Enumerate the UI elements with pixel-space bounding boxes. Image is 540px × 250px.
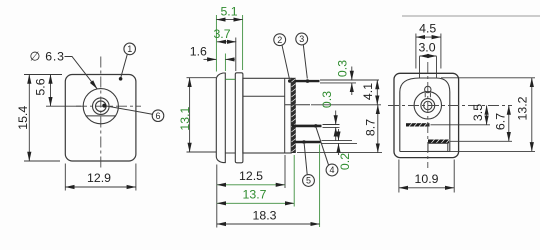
- svg-text:3.5: 3.5: [471, 104, 485, 121]
- dimension 3.5 line: [486, 106, 488, 125]
- pin extension lines right: [320, 79, 379, 81]
- svg-text:1.6: 1.6: [190, 44, 207, 58]
- extension line 1.6 right (green): [224, 54, 226, 72]
- middle pin: [292, 125, 322, 128]
- front view body outline: [65, 75, 136, 162]
- svg-text:13.7: 13.7: [243, 188, 267, 202]
- dimension 4.5 extension lines: [415, 34, 417, 69]
- bottom extension lines: [216, 165, 218, 228]
- dimension 4.1 line: [376, 80, 378, 105]
- leader for diameter 6.3: [65, 57, 98, 89]
- dimension 0.2 bottom pin: [338, 129, 340, 141]
- top pin: [295, 80, 320, 82]
- svg-text:0.2: 0.2: [338, 153, 352, 170]
- balloon label 6: [102, 104, 164, 122]
- dimension 10.9 extension lines: [398, 160, 400, 193]
- horizontal centerline back view: [388, 105, 512, 107]
- dimension 5.6 extension line: [46, 105, 81, 107]
- svg-text:1: 1: [127, 44, 132, 54]
- svg-text:10.9: 10.9: [415, 172, 439, 186]
- svg-text:8.7: 8.7: [363, 119, 377, 136]
- dimension 6.7 extension line: [450, 140, 512, 142]
- dimension 3.5 extension line: [431, 124, 491, 126]
- extension line 3.7 right: [235, 38, 237, 72]
- svg-text:0.3: 0.3: [320, 91, 334, 108]
- body internal horizontal line: [243, 95, 285, 97]
- top key slot lines: [419, 56, 421, 77]
- middle circle: [93, 98, 110, 115]
- barrel middle circle: [421, 99, 435, 113]
- svg-text:5.6: 5.6: [33, 78, 47, 95]
- small hole circle: [425, 86, 431, 92]
- balloon label 5: [302, 140, 314, 186]
- extension line 5.1 left (green): [215, 15, 217, 72]
- groove top line: [225, 78, 235, 80]
- dimension 13.1 extension lines: [187, 77, 217, 79]
- body internal vertical line: [284, 78, 286, 153]
- svg-text:3: 3: [299, 34, 304, 44]
- balloon label 2: [274, 34, 292, 83]
- dimension 4.5 line: [416, 36, 441, 38]
- dimension 3.0 line: [420, 55, 437, 57]
- dimension 10.9 line: [399, 187, 454, 189]
- dimension 18.3 line: [217, 223, 320, 225]
- barrel outer circle: [414, 92, 441, 119]
- dimension 13.2 extension lines: [441, 77, 535, 79]
- dimension 0.3 top pin: [351, 67, 353, 81]
- dimension 13.2 line: [531, 78, 533, 152]
- dimension 0.3 middle pin: [335, 111, 337, 125]
- middle contact line: [285, 104, 310, 106]
- dimension 15.4 line: [28, 75, 30, 162]
- dimension 12.5 line: [217, 184, 285, 186]
- inner circle (center pin): [96, 101, 107, 112]
- svg-text:4.1: 4.1: [361, 83, 375, 100]
- svg-text:2: 2: [277, 35, 282, 45]
- dimension 5.1 line: [216, 19, 242, 21]
- svg-text:6.7: 6.7: [493, 113, 507, 130]
- dimension 13.7 line: [217, 202, 294, 204]
- slot under bottom contact: [428, 143, 448, 151]
- outer circle d6.3: [83, 89, 118, 124]
- svg-text:13.2: 13.2: [515, 96, 529, 120]
- svg-text:∅ 6.3: ∅ 6.3: [30, 50, 65, 64]
- second flange bar: [235, 73, 243, 163]
- svg-text:3.7: 3.7: [213, 27, 230, 41]
- back view body outline: [394, 73, 459, 157]
- svg-text:3.0: 3.0: [418, 41, 435, 55]
- groove bottom line: [225, 152, 235, 154]
- bottom hatched contact: [428, 140, 449, 144]
- main body box: [243, 78, 291, 153]
- svg-text:5: 5: [306, 176, 311, 186]
- inner shroud arch: [400, 78, 450, 152]
- horizontal centerline: [76, 105, 141, 107]
- flange disc (rounded left): [216, 73, 225, 163]
- chord line in circle: [86, 115, 116, 117]
- left hatched contact: [406, 123, 430, 126]
- bottom pin: [293, 141, 321, 143]
- dimension 3.7 line: [217, 41, 236, 43]
- hatched back band: [291, 78, 295, 153]
- barrel inner circle: [424, 101, 432, 109]
- balloon label 3: [296, 33, 310, 83]
- dimension 12.9 extension lines: [64, 164, 66, 191]
- svg-text:6: 6: [155, 111, 160, 121]
- svg-text:18.3: 18.3: [253, 209, 277, 223]
- balloon label 1: [119, 43, 136, 80]
- balloon label 4: [314, 124, 338, 176]
- key slot verticals: [424, 93, 426, 98]
- svg-text:5.1: 5.1: [220, 4, 237, 18]
- svg-text:13.1: 13.1: [178, 106, 192, 130]
- svg-text:12.9: 12.9: [87, 171, 111, 185]
- dimension 12.9 line: [65, 186, 136, 188]
- dimension 8.7 line: [377, 105, 379, 153]
- extension line 5.1 right (green): [242, 15, 244, 70]
- dimension 6.7 line: [508, 106, 510, 142]
- svg-text:12.5: 12.5: [239, 169, 263, 183]
- svg-text:4: 4: [329, 165, 334, 175]
- dimension 15.4 extension lines: [24, 74, 62, 76]
- svg-text:15.4: 15.4: [16, 106, 30, 130]
- vertical centerline back view: [427, 62, 429, 168]
- dimension 13.1 line: [189, 78, 191, 152]
- svg-text:0.3: 0.3: [335, 60, 349, 77]
- dimension 1.6 arrows: [204, 58, 217, 60]
- frame border line top-right: [402, 15, 540, 17]
- vertical centerline: [100, 57, 102, 170]
- svg-text:4.5: 4.5: [419, 22, 436, 36]
- dimension 5.6 line: [50, 75, 52, 107]
